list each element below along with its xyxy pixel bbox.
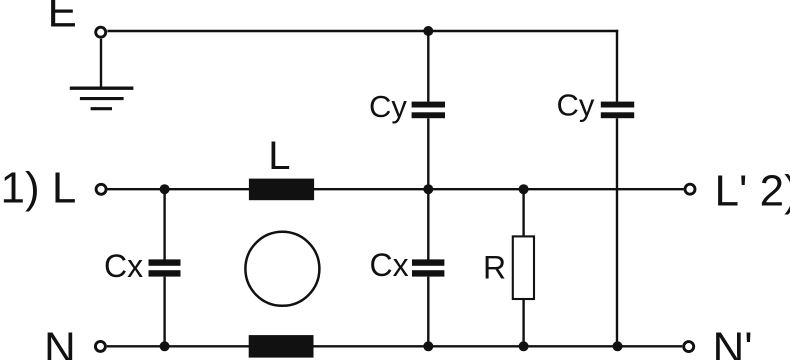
capacitor Cx1 plates (left column) [149,259,181,276]
svg-text:Cx: Cx [370,247,409,283]
ground stub wire below E terminal [100,39,102,87]
svg-text:Cx: Cx [104,248,143,284]
wire N line (terminal N to terminal N') [107,345,683,347]
svg-text:Cy: Cy [557,87,595,122]
wire left column L line to Cx1 top plate [163,189,165,259]
junction dot N line / middle column [423,341,433,351]
junction dot L line / middle column [423,184,433,194]
svg-text:N: N [44,324,76,360]
toroid core circle of common-mode choke [245,232,319,306]
wire middle column E to Cy1 top plate [427,31,429,102]
svg-text:L' 2): L' 2) [715,167,790,216]
terminal E (open circle) [96,27,106,37]
wire middle column Cy1 bottom plate to L line [427,118,429,189]
inductor winding (bottom, on N line) [249,335,314,358]
wire middle column L line to Cx2 top plate [427,189,429,259]
capacitor Cx2 plates (middle column) [412,259,444,276]
terminal N (open circle) [95,341,105,351]
wire E horizontal (E terminal to right corner) [107,30,618,32]
junction dot N line / left column [160,341,170,351]
terminal L (open circle) [96,184,106,194]
wire middle column Cx2 bottom plate to N line [427,277,429,347]
svg-text:1) L: 1) L [1,164,77,213]
capacitor Cy1 plates (middle column) [412,102,445,119]
svg-text:N': N' [713,324,753,360]
wire L line (terminal L to terminal L') [108,188,684,190]
resistor R body [513,236,534,299]
svg-text:R: R [483,249,506,285]
wire right column bottom (Cy2 bottom plate to N line, crosses L line) [616,118,618,346]
terminal L' (open circle) [685,184,695,194]
junction dot E line / middle column [423,26,433,36]
capacitor Cy2 plates (right column) [601,102,634,119]
junction dot L line / R column [519,184,529,194]
wire left column Cx1 bottom plate to N line [163,277,165,347]
wire right column top (corner to Cy2 top plate) [616,30,618,102]
ground symbol [70,88,134,109]
junction dot N line / right column [613,341,623,351]
inductor L winding (top, on L line) [249,179,314,201]
svg-text:L: L [268,134,290,178]
terminal N' (open circle) [684,342,694,352]
wire R column L line to resistor top [522,189,524,237]
svg-text:Cy: Cy [369,89,407,124]
svg-text:E: E [48,0,77,37]
junction dot L line / left column [160,184,170,194]
junction dot N line / R column [519,341,529,351]
wire R column resistor bottom to N line [522,299,524,346]
